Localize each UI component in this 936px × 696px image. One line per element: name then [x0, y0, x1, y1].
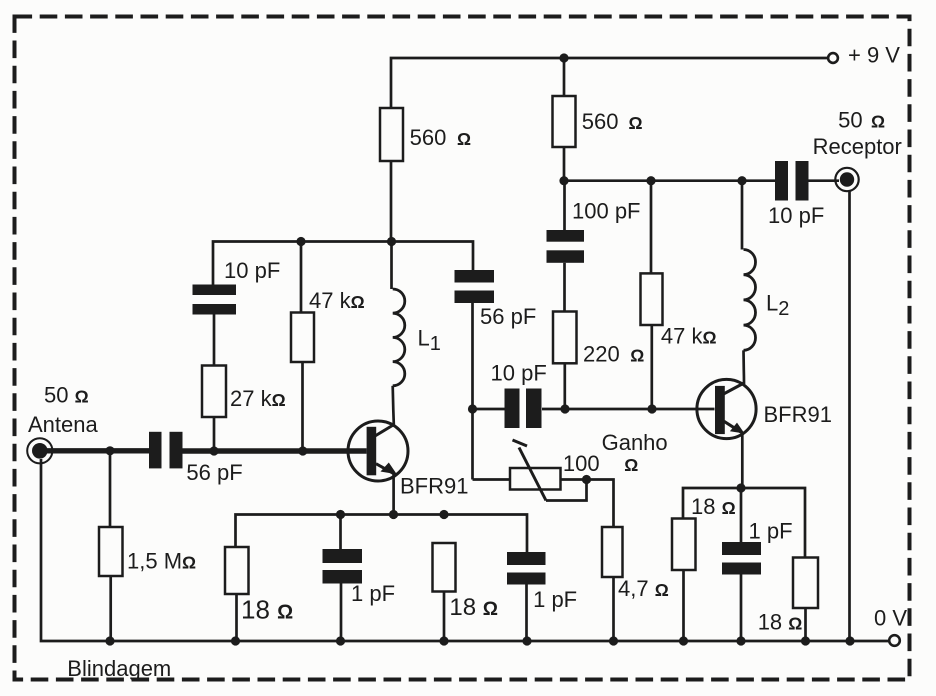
svg-text:560Ω: 560Ω: [582, 109, 643, 134]
svg-text:Ganho: Ganho: [602, 430, 668, 455]
node junction dot base-47k: [647, 404, 656, 413]
svg-text:18 Ω: 18 Ω: [691, 494, 736, 519]
svg-text:56 pF: 56 pF: [480, 304, 536, 329]
svg-text:10 pF: 10 pF: [491, 360, 547, 385]
capacitor C 100pF: [547, 181, 585, 312]
wire rail 2: [564, 147, 775, 181]
node 0V terminal: [889, 635, 900, 646]
capacitor C 10pF output: [775, 161, 839, 201]
node junction dot rail2 left: [559, 176, 568, 185]
svg-text:47 kΩ: 47 kΩ: [661, 323, 717, 348]
wire antenna base thick: [47, 448, 367, 454]
svg-text:18 Ω: 18 Ω: [758, 610, 803, 635]
svg-text:47 kΩ: 47 kΩ: [309, 288, 365, 313]
potentiometer P 100 Ganho: [473, 440, 587, 501]
svg-text:220Ω: 220Ω: [583, 341, 644, 366]
svg-text:10 pF: 10 pF: [224, 258, 280, 283]
inductor L2: [742, 181, 756, 384]
wire receptor to ground: [848, 191, 851, 641]
resistor R 18 #4: [793, 558, 818, 642]
wire emitter row 1: [236, 515, 528, 553]
node junction dot rail1-L1: [387, 237, 396, 246]
svg-text:Blindagem: Blindagem: [67, 656, 171, 681]
resistor R 18 #2: [433, 543, 456, 641]
node +9V terminal: [828, 53, 838, 63]
svg-text:4,7 Ω: 4,7 Ω: [618, 576, 669, 601]
wire 560 #2 top: [563, 58, 566, 96]
resistor R 4,7: [587, 480, 623, 642]
svg-text:50 Ω: 50 Ω: [44, 382, 89, 407]
svg-text:Antena: Antena: [28, 412, 98, 437]
svg-text:1 pF: 1 pF: [533, 587, 577, 612]
wire node rail 1: [213, 242, 473, 285]
svg-text:10 pF: 10 pF: [768, 203, 824, 228]
resistor R1 560: [380, 108, 403, 161]
svg-text:1,5 MΩ: 1,5 MΩ: [127, 549, 196, 574]
node junction dot base-220: [560, 404, 569, 413]
node junction dot ant-47k: [298, 446, 307, 455]
capacitor C 1pF #1: [323, 515, 363, 642]
wire +9V rail: [390, 161, 393, 242]
svg-text:1 pF: 1 pF: [351, 581, 395, 606]
resistor R 27k: [202, 366, 226, 452]
node junction dot 409: [468, 404, 477, 413]
node junction dot ant-27k: [209, 446, 218, 455]
resistor R 1,5M: [99, 451, 123, 641]
capacitor C 10pF #1: [193, 285, 237, 366]
node junction dot row1-emitter: [389, 510, 398, 519]
node Receptor terminal: [835, 168, 858, 191]
resistor R 18 #3: [672, 519, 696, 642]
svg-text:560Ω: 560Ω: [410, 125, 471, 150]
wire emitter row 2: [683, 488, 805, 558]
transistor Q2 BFR91: [697, 379, 756, 488]
capacitor C 56pF #2: [455, 270, 495, 480]
node junction dot 9V-564: [559, 53, 568, 62]
node junction dot row1-r18b: [439, 510, 448, 519]
node junction dots ground: [105, 636, 854, 645]
node Antena terminal: [27, 438, 52, 463]
node junction dot row2: [736, 483, 745, 492]
capacitor C 1pF #3: [722, 488, 761, 641]
inductor L1: [392, 242, 405, 425]
resistor R 47k #1: [291, 242, 314, 452]
node junction dot pot: [582, 475, 591, 484]
capacitor C 56pF #1: [149, 432, 183, 469]
svg-text:27 kΩ: 27 kΩ: [230, 386, 286, 411]
svg-text:Receptor: Receptor: [813, 134, 902, 159]
transistor Q1 BFR91: [348, 421, 408, 515]
node junction dot rail2-L2: [737, 176, 746, 185]
svg-text:100 pF: 100 pF: [572, 199, 641, 224]
svg-text:50Ω: 50Ω: [838, 108, 885, 133]
node junction dot rail2-47k: [646, 176, 655, 185]
svg-text:BFR91: BFR91: [764, 402, 832, 427]
resistor R 220: [553, 312, 577, 410]
resistor R 47k #2: [641, 181, 663, 409]
wire ground rail: [41, 459, 889, 641]
svg-text:BFR91: BFR91: [400, 473, 468, 498]
svg-text:+ 9 V: + 9 V: [848, 43, 900, 68]
svg-text:1 pF: 1 pF: [749, 518, 793, 543]
resistor R 18 #1: [225, 547, 249, 641]
node junction dot rail1-47k: [296, 237, 305, 246]
svg-text:56 pF: 56 pF: [186, 460, 242, 485]
svg-text:0 V: 0 V: [874, 605, 907, 630]
node junction dot ant-1.5M: [105, 446, 114, 455]
wire Q2 base line: [542, 408, 715, 411]
node junction dot row1-c1: [336, 510, 345, 519]
resistor R2 560: [553, 96, 576, 147]
capacitor C 1pF #2: [507, 552, 546, 641]
capacitor C 10pF #3: [473, 389, 542, 429]
svg-text:18 Ω: 18 Ω: [449, 594, 498, 621]
